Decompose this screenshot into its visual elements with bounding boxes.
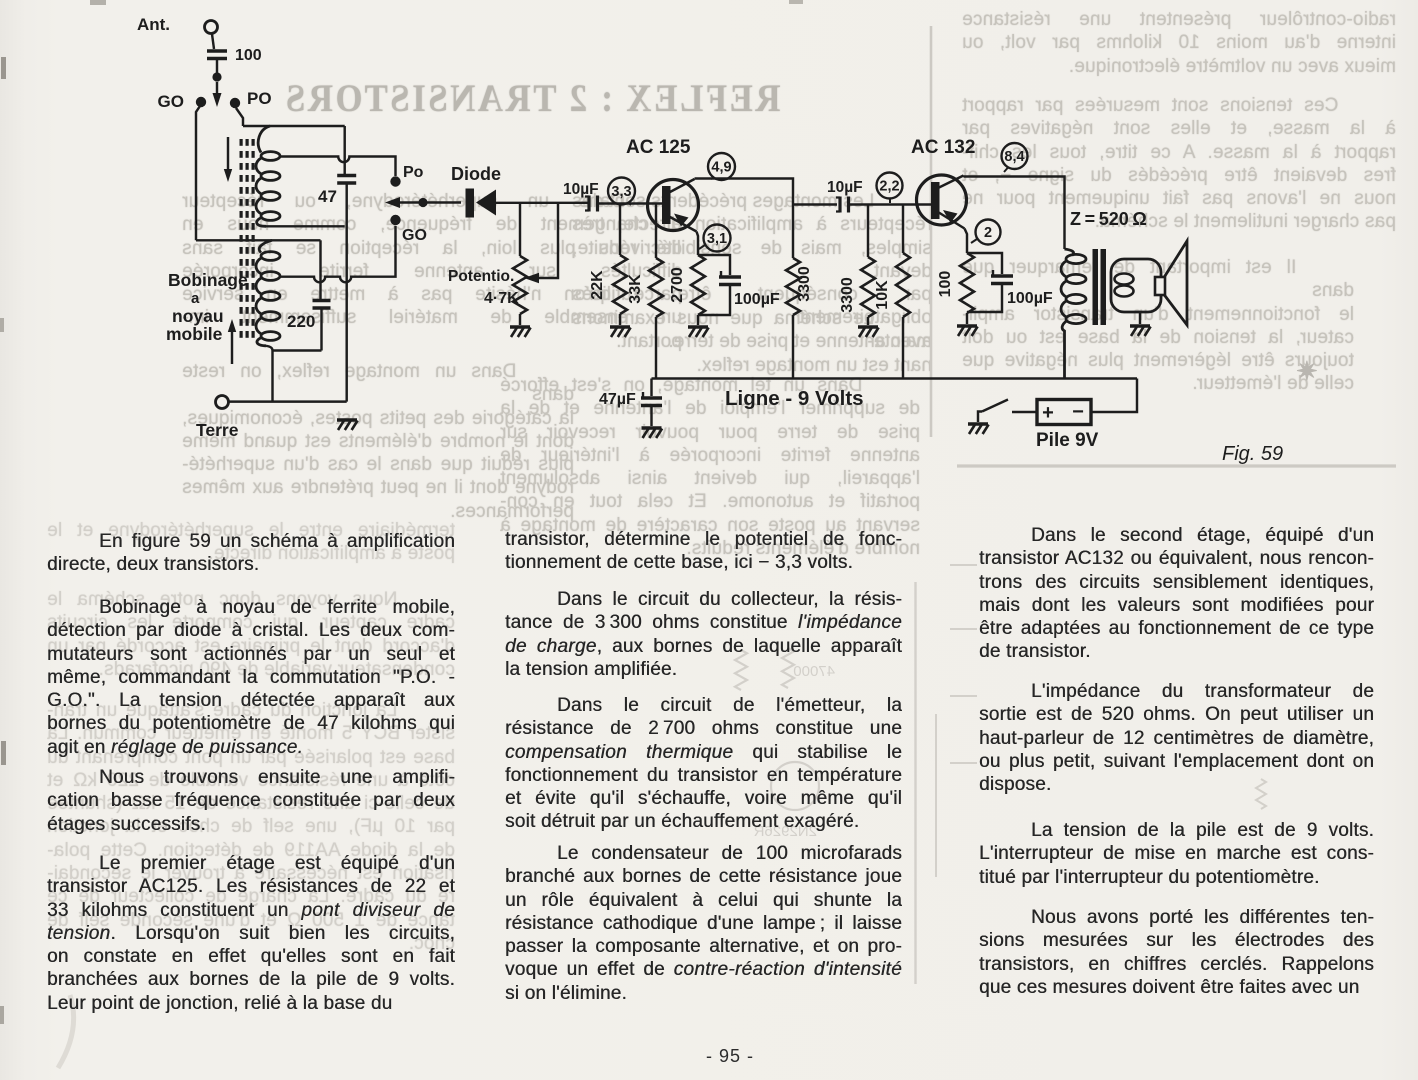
ground (47uF) — [642, 428, 663, 438]
resistor 3300 stage2 top lead — [867, 205, 869, 258]
svg-text:10µF: 10µF — [563, 181, 599, 198]
resistor 3300 stage1 — [786, 258, 800, 315]
switch lever (interrupteur) — [982, 400, 1008, 412]
wire Terre rail — [229, 400, 347, 402]
svg-text:3,1: 3,1 — [707, 231, 727, 247]
svg-text:Ligne - 9 Volts: Ligne - 9 Volts — [725, 387, 864, 410]
wire C10uF2 to base AC132 — [850, 203, 932, 205]
svg-text:Diode: Diode — [451, 164, 501, 184]
switch pivot wire — [978, 412, 982, 423]
ground (2700) — [688, 327, 709, 337]
resistor 2700 bottom lead — [697, 315, 699, 325]
resistor 2700 — [691, 255, 705, 315]
node PO2 contact — [390, 176, 400, 186]
wire emitter AC132 down — [965, 229, 968, 254]
capacitor 220 top lead — [319, 240, 321, 299]
speaker HP voice coil body — [1111, 259, 1161, 312]
voltage 2 (emitter AC132) — [976, 220, 1001, 245]
capacitor 100uF stage2 — [991, 276, 1013, 284]
voltage 8,4 (collector AC132) — [1002, 143, 1028, 169]
wire emitter to C100uF2 — [967, 253, 1002, 274]
svg-text:Z = 520 Ω: Z = 520 Ω — [1070, 209, 1147, 229]
switch wiper arrow (PO/GO select) — [216, 82, 218, 97]
potentiometer P1 top lead — [519, 203, 521, 256]
capacitor 100 (antenna coupling) — [207, 51, 227, 59]
svg-text:3300: 3300 — [839, 277, 856, 313]
wire collector AC132 to transformer — [964, 177, 1065, 250]
capacitor 100uF bottom lead — [698, 285, 730, 315]
svg-text:3300: 3300 — [796, 266, 813, 302]
resistor 33K bottom lead to -9V line — [655, 317, 657, 379]
battery Pile 9V — [1037, 400, 1091, 425]
potentiometer wiper arm — [538, 203, 558, 278]
potentiometer bottom lead — [519, 314, 521, 325]
svg-text:100: 100 — [235, 47, 262, 64]
svg-text:GO: GO — [158, 92, 184, 111]
resistor 22K bottom lead — [619, 314, 621, 325]
svg-text:Terre: Terre — [196, 420, 239, 440]
resistor 33K — [649, 258, 663, 317]
ground (22K) — [610, 327, 631, 337]
resistor 10K top lead — [902, 205, 904, 254]
svg-text:100µF: 100µF — [1007, 290, 1053, 307]
transformer T1 primary — [1065, 249, 1074, 256]
wire L1 bottom to C220 bottom — [273, 349, 322, 351]
diode D1 (detector) — [466, 189, 475, 218]
svg-text:2: 2 — [984, 225, 992, 241]
svg-text:mobile: mobile — [166, 324, 223, 344]
resistor 22K — [613, 255, 627, 314]
antenna terminal Ant. — [205, 21, 218, 34]
arrow core adjust up — [231, 330, 233, 364]
svg-text:8,4: 8,4 — [1004, 149, 1024, 165]
terminal Terre — [216, 396, 229, 409]
svg-text:10K: 10K — [874, 280, 891, 310]
speaker ground lead — [1139, 312, 1141, 324]
capacitor 220 — [313, 301, 331, 309]
svg-text:−: − — [1072, 401, 1084, 423]
wire tank top rail — [243, 125, 345, 127]
capacitor 100uF stage1 — [719, 277, 741, 285]
svg-text:4·7K: 4·7K — [484, 290, 519, 307]
resistor 100 bottom lead — [966, 313, 968, 324]
svg-text:33K: 33K — [627, 274, 644, 304]
wire GO1 down left side — [196, 106, 200, 240]
wire collector AC125 rail — [695, 179, 794, 259]
inductor L1 lower winding — [259, 240, 272, 252]
transformer T1 core — [1093, 249, 1099, 325]
svg-text:Po: Po — [403, 164, 424, 181]
capacitor 220 bottom lead — [320, 308, 322, 351]
capacitor 47uF bottom lead — [650, 406, 652, 426]
wire tap lower coil to GO2 (with hops) — [281, 226, 396, 282]
capacitor 47 (padder) — [337, 176, 356, 184]
capacitor 100uF2 bottom lead — [967, 284, 1002, 312]
svg-text:22K: 22K — [589, 270, 606, 300]
capacitor C 10uF stage2 — [840, 197, 849, 213]
node collector to C10uF2 — [793, 203, 837, 205]
wire antenna to C 100 — [212, 34, 214, 49]
wire L1 bottom lead down to Terre rail — [266, 346, 273, 402]
svg-text:4,9: 4,9 — [711, 160, 731, 176]
resistor 10K bottom lead to -9V — [902, 317, 904, 379]
capacitor 47uF — [641, 398, 662, 406]
svg-text:100: 100 — [937, 271, 954, 298]
wire main vertical (C47 branch) — [343, 126, 345, 174]
svg-text:Fig. 59: Fig. 59 — [1222, 443, 1283, 465]
wiper wire from diode to switch (arrow) — [398, 201, 461, 203]
ground (100) — [957, 326, 978, 336]
svg-text:Bobinage: Bobinage — [168, 270, 248, 290]
resistor 3300 stage1 bottom lead to -9V — [792, 315, 794, 379]
speaker HP cone — [1164, 241, 1187, 325]
svg-text:AC 125: AC 125 — [626, 137, 691, 158]
svg-text:Pile 9V: Pile 9V — [1036, 430, 1099, 451]
svg-text:Potentio.: Potentio. — [448, 268, 514, 285]
node antenna switch junction — [212, 72, 221, 81]
wire battery to switch contact — [1012, 411, 1037, 413]
svg-text:3,3: 3,3 — [611, 184, 631, 200]
svg-text:noyau: noyau — [172, 306, 224, 326]
ground (potentiometer) — [510, 327, 531, 337]
resistor 10K — [896, 253, 910, 317]
svg-text:Ant.: Ant. — [137, 15, 170, 34]
wire C100 to junction — [216, 59, 218, 74]
ground (speaker) — [1130, 326, 1151, 336]
svg-text:GO: GO — [402, 227, 427, 244]
node GO1 contact — [196, 97, 206, 107]
voltage 3,1 (emitter AC125) — [704, 225, 731, 252]
resistor 3300 stage2 — [861, 257, 875, 317]
ground (3300 stage2) — [858, 327, 879, 337]
resistor 33K top lead — [655, 204, 657, 259]
node PO1 contact — [230, 98, 240, 108]
svg-text:2700: 2700 — [669, 267, 686, 303]
svg-text:2,2: 2,2 — [879, 179, 899, 195]
potentiometer P1 4.7K — [513, 256, 527, 314]
svg-text:47µF: 47µF — [599, 391, 636, 408]
ground (Terre rail) — [337, 420, 358, 430]
wire GO1 horizontal to C220 — [196, 239, 321, 241]
wire C10uF to base AC125 — [599, 202, 663, 204]
resistor 3300 stage2 bottom lead — [867, 317, 869, 325]
node on wiper wire — [418, 198, 427, 207]
voltage 2,2 (base AC132) — [877, 173, 903, 199]
resistor 22K top lead — [619, 204, 621, 256]
svg-text:+: + — [1042, 402, 1054, 424]
svg-text:AC 132: AC 132 — [911, 137, 975, 158]
wire Ligne -9 Volts bus — [652, 377, 1138, 379]
svg-text:a: a — [191, 290, 200, 307]
svg-text:✷: ✷ — [1296, 356, 1318, 386]
wire emitter AC125 down — [697, 232, 699, 256]
capacitor 47uF lead — [650, 379, 652, 397]
speaker HP magnet — [1155, 277, 1165, 295]
voltage 4,9 (collector AC125) — [708, 153, 735, 180]
resistor 100 — [960, 253, 974, 313]
wire -9V to battery — [1091, 379, 1137, 413]
svg-text:220: 220 — [287, 312, 315, 331]
node GO2 contact — [390, 215, 400, 225]
ground (switch) — [968, 424, 989, 434]
wire L1 bottom to main vertical — [266, 225, 345, 227]
svg-text:10µF: 10µF — [827, 179, 863, 196]
svg-text:PO: PO — [247, 89, 272, 108]
wire diode to C 10uF — [496, 202, 588, 204]
ferrite core dashes (noyau mobile) — [240, 139, 243, 146]
capacitor C 10uF stage1 — [589, 196, 598, 212]
wire PO1 down to tank top — [236, 108, 243, 126]
svg-text:100µF: 100µF — [734, 291, 780, 308]
wire tap upper coil to PO2 (with hops) — [281, 157, 396, 177]
arrow core adjust down — [227, 137, 229, 172]
inductor L1 upper winding (Bobinage) — [258, 126, 270, 153]
svg-text:47: 47 — [318, 187, 337, 206]
wire emitter to C100uF — [698, 255, 730, 275]
voltage 3,3 (base AC125) — [608, 178, 635, 205]
